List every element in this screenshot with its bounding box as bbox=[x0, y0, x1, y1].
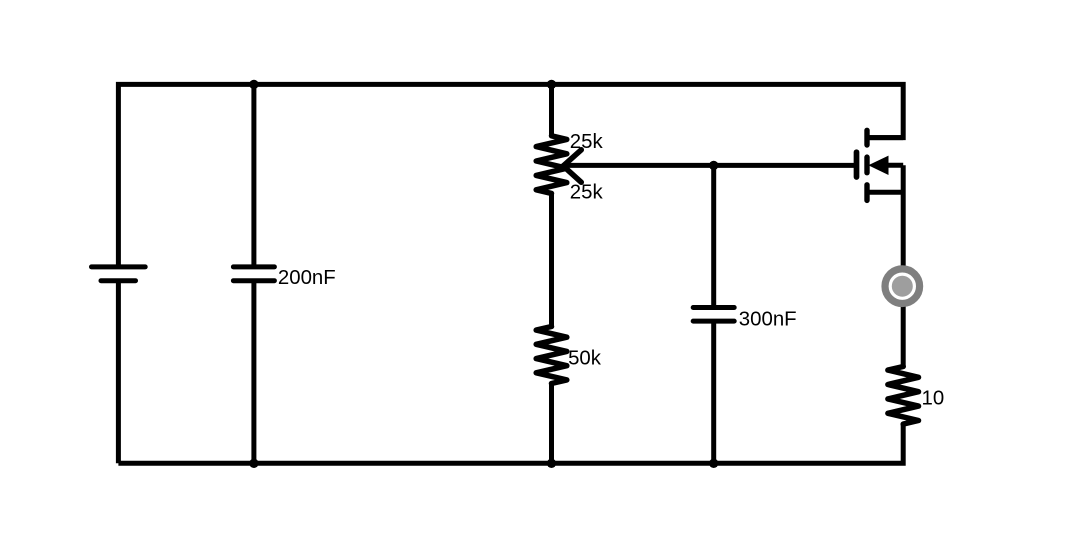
capacitor C1 bbox=[233, 267, 274, 281]
indicator lamp ring bbox=[885, 269, 920, 304]
potentiometer R1 wiper arrow bbox=[563, 150, 581, 183]
wire wiper to gate bbox=[564, 163, 858, 168]
svg-text:25k: 25k bbox=[570, 131, 604, 153]
node dot top C1 bbox=[249, 80, 258, 89]
MOSFET Q1 source stub bbox=[867, 190, 903, 195]
wire capacitor C2 top lead bbox=[711, 165, 716, 307]
MOSFET Q1 drain stub bbox=[867, 135, 903, 140]
node dot top pot bbox=[547, 80, 556, 89]
svg-text:50k: 50k bbox=[568, 348, 602, 370]
wire capacitor C1 top lead bbox=[251, 84, 256, 267]
wire MOSFET source down to resistor R3 bbox=[901, 165, 906, 367]
MOSFET Q1 channel middle segment bbox=[864, 157, 869, 173]
wire R2 bottom lead bbox=[549, 383, 554, 464]
battery V1 bbox=[92, 267, 146, 281]
node dot bottom C1 bbox=[249, 459, 258, 468]
MOSFET Q1 channel top segment bbox=[864, 130, 869, 145]
wire potentiometer to R2 lead bbox=[549, 193, 554, 328]
MOSFET Q1 body arrow bbox=[868, 156, 888, 175]
node dot gate wire C2 bbox=[709, 161, 718, 170]
svg-text:200nF: 200nF bbox=[278, 267, 336, 289]
wire capacitor C2 bottom lead bbox=[711, 321, 716, 463]
svg-text:25k: 25k bbox=[570, 181, 604, 203]
wire potentiometer top lead bbox=[549, 84, 554, 137]
wire battery bottom lead bbox=[116, 281, 121, 464]
capacitor C2 bbox=[693, 308, 734, 322]
MOSFET Q1 body wire bbox=[885, 163, 903, 168]
MOSFET Q1 channel bottom segment bbox=[864, 185, 869, 201]
MOSFET Q1 gate bar bbox=[854, 152, 860, 177]
resistor R2 zigzag bbox=[536, 327, 567, 384]
wire capacitor C1 bottom lead bbox=[251, 281, 256, 464]
indicator lamp inner disk bbox=[892, 276, 913, 297]
wire bottom bus bbox=[118, 424, 903, 463]
resistor R3 zigzag bbox=[888, 367, 919, 425]
node dot bottom pot branch bbox=[547, 459, 556, 468]
svg-text:10: 10 bbox=[922, 388, 945, 410]
wire top bus from battery to MOSFET drain corner bbox=[118, 84, 903, 269]
potentiometer R1 zigzag body bbox=[536, 136, 567, 194]
svg-text:300nF: 300nF bbox=[739, 309, 797, 331]
node dot bottom C2 bbox=[709, 459, 718, 468]
